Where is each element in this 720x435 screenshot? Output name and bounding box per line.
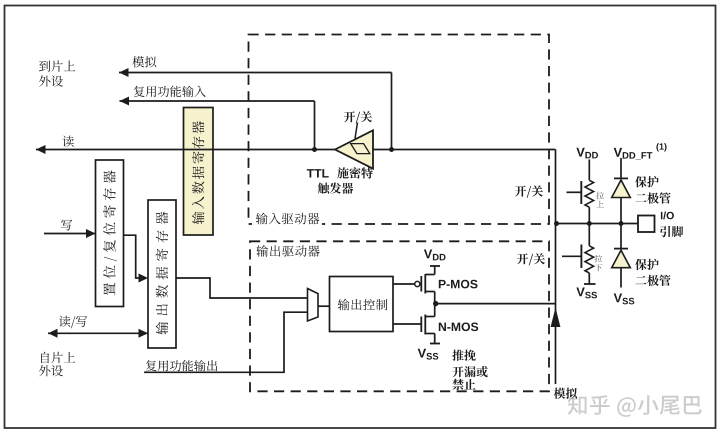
block output control 输出控制 (330, 277, 394, 332)
label 到片上外设 (39, 60, 75, 86)
register 输出数据寄存器 (148, 200, 176, 348)
node IO-analog junction (554, 221, 559, 226)
node analog junction (389, 147, 394, 152)
wire to I/O pin (556, 223, 639, 225)
wire read 读 (36, 136, 336, 154)
net VDD (pull-up) (576, 148, 598, 181)
node AF input junction (312, 147, 317, 152)
wire schmitt input from IO (373, 150, 556, 224)
wire ODR to mux (176, 278, 308, 298)
transistor P-MOS (415, 274, 478, 304)
label 开/关 (pull-up switch) (515, 185, 543, 197)
wire push-pull output (436, 303, 556, 305)
net VDD_FT (1) (614, 143, 667, 178)
wire analog input 模拟 (119, 56, 392, 149)
wire read through IDR (183, 149, 214, 151)
node pull-up junction (587, 221, 592, 226)
label 自片上外设 (39, 352, 75, 377)
net VDD (pmos) (424, 250, 446, 275)
wire read/write 读/写 (48, 316, 148, 338)
input driver dashed box 输入驱动器 (249, 35, 550, 227)
pull-up switch gate (567, 181, 582, 204)
label 开/关 (pull-down switch) (517, 253, 545, 265)
diode protection bottom 保护二极管 (612, 224, 671, 288)
output driver dashed box 输出驱动器 (250, 241, 549, 391)
net VSS (diode bottom) (614, 294, 635, 305)
wire alternate function output 复用功能输出 (144, 312, 308, 372)
wire gate P-MOS (393, 283, 415, 285)
wire analog to pin 模拟 (551, 224, 578, 399)
node diode top junction (619, 221, 624, 226)
net VSS (pull-down) (576, 288, 597, 299)
node push-pull (433, 301, 438, 306)
mux (output select) (308, 289, 319, 322)
watermark 知乎 @小尾巴 (568, 395, 704, 418)
resistor pull-down 拉下 (584, 224, 602, 285)
register 输入数据寄存器 (184, 108, 214, 236)
transistor N-MOS (421, 304, 478, 344)
wire write 写 (44, 220, 96, 238)
label 推挽/开漏或/禁止 (452, 350, 488, 391)
wire alternate function input 复用功能输入 (120, 86, 315, 150)
resistor pull-up 拉上 (585, 180, 604, 223)
wire gate N-MOS (393, 323, 421, 325)
wire BSRR to ODR (124, 235, 149, 282)
register 置位/复位寄存器 (96, 160, 124, 307)
net VSS (nmos) (418, 344, 440, 360)
label TTL 施密特触发器 (307, 167, 373, 194)
schmitt trigger TTL (335, 123, 373, 169)
pull-down switch gate (562, 245, 581, 269)
wire mux to output control (318, 305, 330, 307)
label 开/关 (schmitt switch) (344, 111, 372, 123)
I/O pin 引脚 (638, 212, 683, 238)
diode protection top 保护二极管 (612, 176, 671, 224)
